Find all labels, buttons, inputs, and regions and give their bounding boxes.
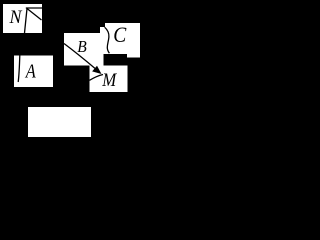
vertical slash in N box <box>25 9 28 34</box>
white patch M box <box>90 66 128 93</box>
white patch bottom empty box <box>28 107 91 137</box>
white patch C box lower lip <box>127 50 140 58</box>
white patch A box <box>14 56 53 88</box>
svg-text:M: M <box>101 70 117 91</box>
svg-text:N: N <box>9 7 23 28</box>
arrowhead at M <box>93 67 100 73</box>
white patch N box <box>3 4 42 33</box>
vertical line in A box <box>18 56 20 83</box>
angle arc in C box <box>105 27 110 53</box>
svg-text:B: B <box>77 37 87 56</box>
white patch B box <box>64 33 104 66</box>
black bite over C box top-left corner <box>100 23 105 27</box>
main arrow shaft B to M <box>64 44 96 70</box>
M lead-in swash <box>90 75 104 81</box>
svg-text:A: A <box>24 61 36 82</box>
svg-text:C: C <box>113 22 126 47</box>
white patch C box <box>100 23 140 54</box>
incline diagonal in N box <box>27 9 42 21</box>
horizontal line top of incline <box>26 7 42 9</box>
